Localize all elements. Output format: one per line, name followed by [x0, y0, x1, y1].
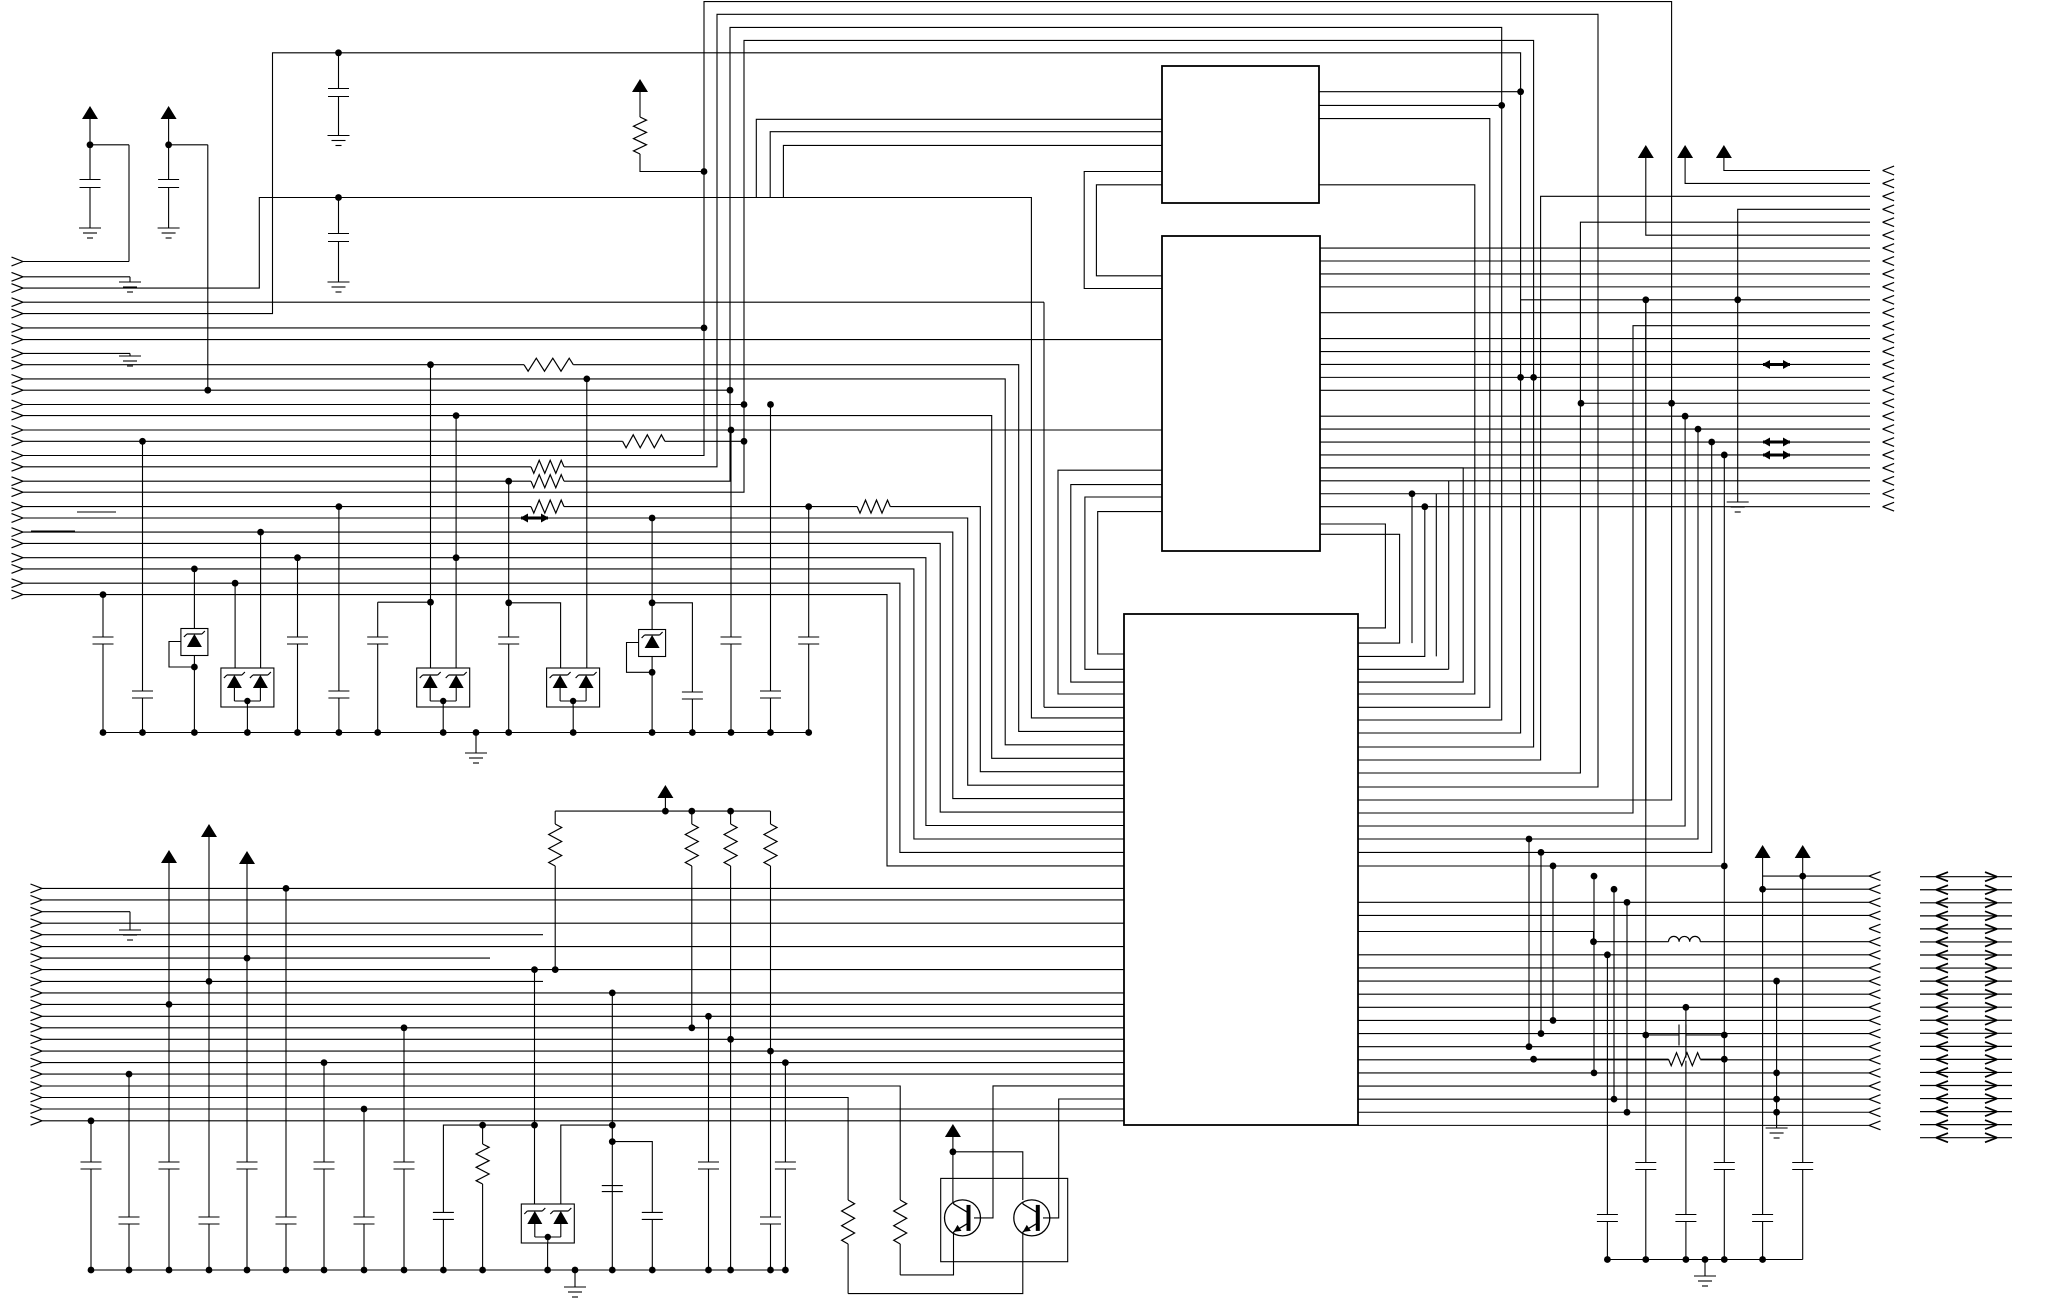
net line J4-20 — [42, 1108, 1124, 1110]
bidir pair row 20 — [1920, 1124, 2012, 1126]
weave vertical — [1613, 889, 1615, 1099]
connector J1 pin 24 — [12, 553, 24, 562]
ground — [1727, 502, 1749, 512]
ground — [564, 1287, 586, 1297]
bidir pair row 7 — [1920, 954, 2012, 956]
ESD rail — [103, 732, 810, 734]
node — [649, 729, 656, 736]
connector J1 pin 18 — [12, 477, 24, 486]
wire — [770, 1224, 772, 1270]
transistor Q1 — [945, 1200, 981, 1236]
node — [1526, 1043, 1533, 1050]
connector J4 pin 16 — [31, 1058, 43, 1067]
net line J2-25 — [1320, 480, 1870, 482]
connector J3 pin 16 — [1869, 1069, 1881, 1078]
wire — [168, 1169, 170, 1270]
U2-U3 right link 2 — [1320, 534, 1400, 643]
wire — [770, 866, 772, 1217]
wire — [586, 379, 588, 668]
capacitor C33 — [199, 1217, 220, 1224]
bidir pair row 12 — [1920, 1019, 2012, 1021]
bidir pair row 14 — [1920, 1045, 2012, 1047]
net line J4-13 — [42, 1027, 1124, 1029]
wire — [128, 1224, 130, 1270]
wire — [1723, 1170, 1725, 1260]
node — [1526, 836, 1533, 843]
node — [453, 412, 460, 419]
node — [294, 729, 301, 736]
node — [688, 1024, 695, 1031]
wire — [1762, 858, 1764, 889]
wire — [1776, 981, 1778, 1128]
wire — [297, 558, 299, 637]
net line J2-12 — [1320, 312, 1870, 314]
connector J2 pin 7 — [1883, 244, 1895, 253]
node — [1682, 413, 1689, 420]
node — [401, 1024, 408, 1031]
net line J1-22 — [23, 532, 1124, 799]
net line J4-17 — [42, 1073, 1124, 1075]
capacitor C42 — [698, 1162, 719, 1169]
node — [649, 515, 656, 522]
node — [767, 1048, 774, 1055]
wire — [847, 1244, 849, 1294]
net line J2-27 — [1320, 506, 1870, 508]
net line J3r-5 — [1358, 932, 1669, 942]
U1 pin out 2 — [1319, 104, 1502, 106]
power VCC9 — [1795, 845, 1811, 858]
node — [126, 1071, 133, 1078]
connector J4 pin 20 — [31, 1105, 43, 1114]
wire — [534, 970, 536, 1204]
wire — [651, 657, 653, 733]
node — [505, 729, 512, 736]
connector J3 pin 17 — [1869, 1082, 1881, 1091]
bidir pair row 15 — [1920, 1058, 2012, 1060]
wire — [90, 1169, 92, 1270]
net line J1-13 — [23, 416, 1124, 759]
wire — [142, 441, 144, 691]
connector J2 pin 23 — [1883, 451, 1895, 460]
node — [204, 387, 211, 394]
bidir pair row 6 — [1920, 941, 2012, 943]
connector J1 pin 3 — [12, 284, 24, 293]
node — [1578, 400, 1585, 407]
U2-U3 link 3 — [1085, 497, 1162, 669]
net line J3r-12 — [1358, 1033, 1869, 1035]
capacitor C37 — [354, 1217, 375, 1224]
connector J2 pin 5 — [1883, 218, 1895, 227]
node — [767, 1267, 774, 1274]
connector J1 pin 19 — [12, 488, 24, 497]
TVS diode D5 — [639, 630, 666, 657]
wire — [1043, 302, 1045, 707]
connector J1 pin 22 — [12, 528, 24, 537]
node — [728, 427, 735, 434]
net line J1-24 — [23, 558, 1124, 826]
wire — [455, 416, 457, 668]
node — [335, 49, 342, 56]
node — [727, 1267, 734, 1274]
node — [100, 729, 107, 736]
bidir pair row 10 — [1920, 993, 2012, 995]
node — [1642, 1256, 1649, 1263]
connector J1 pin 20 — [12, 502, 24, 511]
power VCC12 — [239, 851, 255, 864]
node — [609, 1267, 616, 1274]
wire — [193, 569, 195, 629]
net line J1-19 — [23, 40, 1534, 747]
U2-U3 right link 1 — [1320, 524, 1385, 628]
connector J2 pin 22 — [1883, 438, 1895, 447]
node — [1759, 886, 1766, 893]
connector J4 pin 11 — [31, 1000, 43, 1009]
capacitor C1 — [80, 180, 101, 188]
node — [374, 729, 381, 736]
node — [440, 1267, 447, 1274]
wire — [193, 656, 195, 733]
U2-U3 link 2 — [1071, 485, 1162, 682]
net line J1-18 — [23, 27, 1502, 720]
node — [662, 808, 669, 815]
resistor R14 — [764, 824, 777, 866]
capacitor C10 — [498, 637, 519, 644]
wire — [1762, 1222, 1764, 1260]
weave vertical — [1528, 839, 1530, 1047]
capacitor C5 — [93, 637, 114, 644]
wire — [572, 707, 574, 733]
wire — [442, 707, 444, 733]
wire — [651, 518, 653, 630]
connector J3 pin 19 — [1869, 1108, 1881, 1117]
node — [166, 1001, 173, 1008]
wire — [1534, 1058, 1669, 1060]
node — [552, 966, 559, 973]
wire — [640, 154, 704, 172]
net line J2-2 — [1685, 158, 1870, 183]
node — [294, 554, 301, 561]
node — [206, 978, 213, 985]
net line J3-1 — [1358, 865, 1724, 867]
connector J1 pin 23 — [12, 539, 24, 548]
node — [1550, 863, 1557, 870]
connector J2 pin 26 — [1883, 489, 1895, 498]
wire — [1646, 1034, 1679, 1036]
connector J4 pin 19 — [31, 1093, 43, 1102]
net line J2-26 — [1320, 493, 1870, 495]
connector J1 pin 4 — [12, 298, 24, 307]
node — [1611, 886, 1618, 893]
net line J4-10 — [42, 992, 1124, 994]
power VCC6 — [1677, 145, 1693, 158]
wire — [338, 507, 340, 691]
wire — [142, 698, 144, 733]
wire — [168, 188, 170, 229]
wire — [554, 811, 556, 824]
connector J4 pin 1 — [31, 884, 43, 893]
weave vertical — [1645, 300, 1647, 800]
connector J2 pin 18 — [1883, 386, 1895, 395]
node — [361, 1106, 368, 1113]
power VCC1 — [82, 106, 98, 119]
wire — [297, 644, 299, 733]
wire — [547, 1243, 549, 1270]
bidir marker — [1762, 450, 1791, 459]
power VCC4 — [657, 785, 673, 798]
ground — [119, 282, 141, 292]
connector J1 pin 11 — [12, 386, 24, 395]
node — [336, 729, 343, 736]
net line J3r-3 — [1358, 901, 1869, 903]
node — [1517, 374, 1524, 381]
node — [244, 729, 251, 736]
net line J3r-7 — [1358, 967, 1869, 969]
resistor R1 — [634, 117, 647, 154]
net line J3r-10 — [1358, 1006, 1869, 1008]
wire — [338, 53, 340, 89]
wire — [1762, 889, 1764, 1214]
connector J1 pin 17 — [12, 462, 24, 471]
connector J3 pin 9 — [1869, 977, 1881, 986]
connector J2 pin 4 — [1883, 205, 1895, 214]
connector J3 pin 14 — [1869, 1042, 1881, 1051]
ground — [328, 136, 350, 146]
connector J2 pin 16 — [1883, 360, 1895, 369]
node — [166, 1267, 173, 1274]
net line J1-16 — [23, 2, 1672, 800]
wire — [784, 1169, 786, 1270]
weave vertical — [1552, 866, 1554, 1021]
capacitor C30 — [81, 1162, 102, 1169]
capacitor C23 — [1714, 1163, 1735, 1170]
node — [335, 194, 342, 201]
wire — [1606, 1222, 1608, 1260]
node — [321, 1059, 328, 1066]
node — [544, 1267, 551, 1274]
wire — [128, 1074, 130, 1217]
node — [688, 808, 695, 815]
wire — [1723, 455, 1725, 1163]
node — [767, 729, 774, 736]
wire — [168, 119, 170, 145]
wire — [482, 1184, 484, 1270]
weave drop — [1358, 442, 1712, 852]
connector J3 pin 7 — [1869, 950, 1881, 959]
node — [1498, 102, 1505, 109]
node — [727, 387, 734, 394]
node — [570, 729, 577, 736]
node — [705, 1013, 712, 1020]
connector J1 pin 10 — [12, 375, 24, 384]
wire — [363, 1224, 365, 1270]
wire — [1686, 1034, 1724, 1036]
connector J4 pin 21 — [31, 1116, 43, 1125]
connector J4 pin 4 — [31, 919, 43, 928]
bidir pair row 18 — [1920, 1098, 2012, 1100]
resistor R3 — [531, 460, 564, 473]
capacitor C36 — [314, 1162, 335, 1169]
wire — [246, 1169, 248, 1270]
node — [440, 729, 447, 736]
connector J2 pin 12 — [1883, 308, 1895, 317]
net line J3r-19 — [1358, 1124, 1869, 1126]
wire — [89, 145, 91, 180]
connector J2 pin 1 — [1883, 166, 1895, 175]
connector J2 pin 19 — [1883, 399, 1895, 408]
inductor L1 — [1669, 936, 1701, 941]
capacitor C40 — [602, 1186, 623, 1192]
connector J3 pin 10 — [1869, 990, 1881, 999]
wire — [378, 601, 431, 603]
capacitor C39b — [433, 1212, 454, 1219]
connector J2 pin 6 — [1883, 231, 1895, 240]
connector J3 pin 20 — [1869, 1121, 1881, 1130]
node — [649, 599, 656, 606]
connector J2 pin 27 — [1883, 502, 1895, 511]
ground — [79, 228, 101, 238]
IC U3 — [1124, 614, 1358, 1125]
power VCC2 — [161, 106, 177, 119]
net line J1-15 — [23, 440, 744, 442]
net line J2-6 — [1646, 158, 1870, 235]
net line J3r-16 — [1358, 1085, 1869, 1087]
node — [1702, 1256, 1709, 1263]
connector J2 pin 14 — [1883, 334, 1895, 343]
node — [257, 529, 264, 536]
Q1 emitter — [900, 1234, 953, 1275]
node — [1721, 863, 1728, 870]
weave drop — [1358, 416, 1685, 826]
weave drop — [1448, 481, 1450, 669]
net line J4-12 — [42, 1015, 1124, 1017]
node — [741, 438, 748, 445]
wire — [1700, 1058, 1724, 1060]
node — [139, 729, 146, 736]
U1 pin out 1 — [1319, 91, 1521, 93]
wire — [612, 1142, 652, 1213]
wire — [561, 1125, 613, 1204]
node — [191, 729, 198, 736]
connector J1 pin 5 — [12, 309, 24, 318]
wire — [169, 144, 208, 146]
node — [767, 401, 774, 408]
connector J3 pin 6 — [1869, 937, 1881, 946]
net line J2-15 — [1320, 351, 1870, 353]
net line J2-11 — [1521, 299, 1870, 301]
capacitor C6 — [132, 691, 153, 698]
connector J1 pin 7 — [12, 335, 24, 344]
wire — [208, 981, 210, 1217]
node — [1683, 1004, 1690, 1011]
net line J3r-13 — [1358, 1046, 1869, 1048]
node — [609, 1138, 616, 1145]
wire — [1606, 955, 1608, 1215]
net line J4-11 — [42, 1003, 1124, 1005]
wire — [442, 1219, 444, 1270]
wire — [430, 365, 432, 668]
node — [232, 580, 239, 587]
node — [1409, 490, 1416, 497]
stub segment — [31, 530, 75, 532]
connector J2 pin 24 — [1883, 463, 1895, 472]
node — [361, 1267, 368, 1274]
connector J1 pin 2 — [12, 272, 24, 281]
wire — [338, 242, 340, 283]
connector J3 pin 15 — [1869, 1055, 1881, 1064]
wire — [508, 644, 510, 733]
bidir pair row 21 — [1920, 1137, 2012, 1139]
node — [609, 1122, 616, 1129]
wire — [808, 507, 810, 637]
connector J3 pin 2 — [1869, 885, 1881, 894]
wire — [338, 198, 340, 234]
weave vertical — [1593, 876, 1595, 1073]
ground — [158, 228, 180, 238]
net line J3r-9 — [1358, 993, 1869, 995]
node — [1734, 296, 1741, 303]
TVS array D2 — [221, 668, 274, 707]
power VCC3 — [632, 79, 648, 92]
wire — [260, 532, 262, 668]
ground — [1694, 1276, 1716, 1286]
net line J4-2 — [42, 899, 1124, 901]
net line J3r-14 — [1358, 1059, 1869, 1061]
connector J4 pin 14 — [31, 1035, 43, 1044]
wire — [1685, 1007, 1687, 1214]
capacitor C44 — [775, 1162, 796, 1169]
resistor R2 — [623, 435, 665, 448]
net line J1-1 — [23, 261, 129, 263]
node — [283, 1267, 290, 1274]
wire — [639, 92, 641, 117]
capacitor C11 — [682, 692, 703, 699]
connector J1 pin 13 — [12, 411, 24, 420]
connector J4 pin 17 — [31, 1070, 43, 1079]
wire — [208, 837, 210, 981]
net line J4-4 — [42, 922, 1124, 924]
net line J2-3 — [1358, 196, 1870, 760]
net line J4-5 — [42, 934, 543, 936]
node — [572, 1267, 579, 1274]
TVS array D4 — [547, 668, 600, 707]
ground — [1766, 1128, 1788, 1138]
resistor R11 — [894, 1200, 907, 1244]
net line J3r-15 — [1358, 1072, 1869, 1074]
connector J2 pin 15 — [1883, 347, 1895, 356]
node — [321, 1267, 328, 1274]
wire — [627, 643, 653, 673]
net line J1-5 — [23, 53, 1521, 733]
wire — [730, 430, 732, 637]
net line J2-14 — [1320, 338, 1870, 340]
wire — [1700, 941, 1869, 943]
wire — [207, 145, 209, 390]
weave vertical — [1626, 902, 1628, 1112]
node — [531, 966, 538, 973]
connector J1 pin 6 — [12, 324, 24, 333]
wire — [1645, 1170, 1647, 1260]
weave vertical — [1411, 494, 1413, 643]
connector J4 pin 6 — [31, 942, 43, 951]
node — [727, 808, 734, 815]
wire — [338, 97, 340, 136]
net line J2-16 — [1320, 363, 1870, 365]
bidir pair row 9 — [1920, 980, 2012, 982]
net line J1-27 — [23, 595, 1124, 866]
wire — [554, 866, 556, 970]
net line J2-17 — [1320, 376, 1870, 378]
wire — [90, 144, 129, 146]
